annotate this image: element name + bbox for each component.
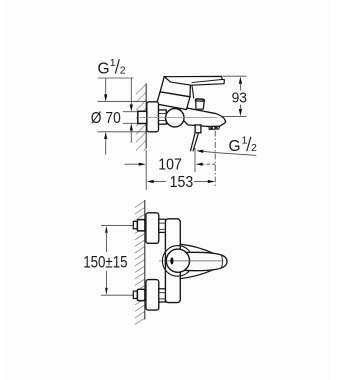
svg-text:2: 2	[120, 64, 126, 76]
svg-text:107: 107	[158, 157, 182, 174]
svg-text:150±15: 150±15	[83, 253, 127, 271]
svg-text:1: 1	[242, 134, 248, 146]
svg-text:2: 2	[251, 142, 257, 154]
svg-text:Ø 70: Ø 70	[91, 110, 121, 127]
svg-text:G: G	[98, 60, 110, 77]
svg-text:153: 153	[170, 174, 194, 191]
svg-text:1: 1	[110, 57, 116, 69]
svg-text:G: G	[229, 138, 241, 155]
svg-text:93: 93	[232, 91, 247, 107]
